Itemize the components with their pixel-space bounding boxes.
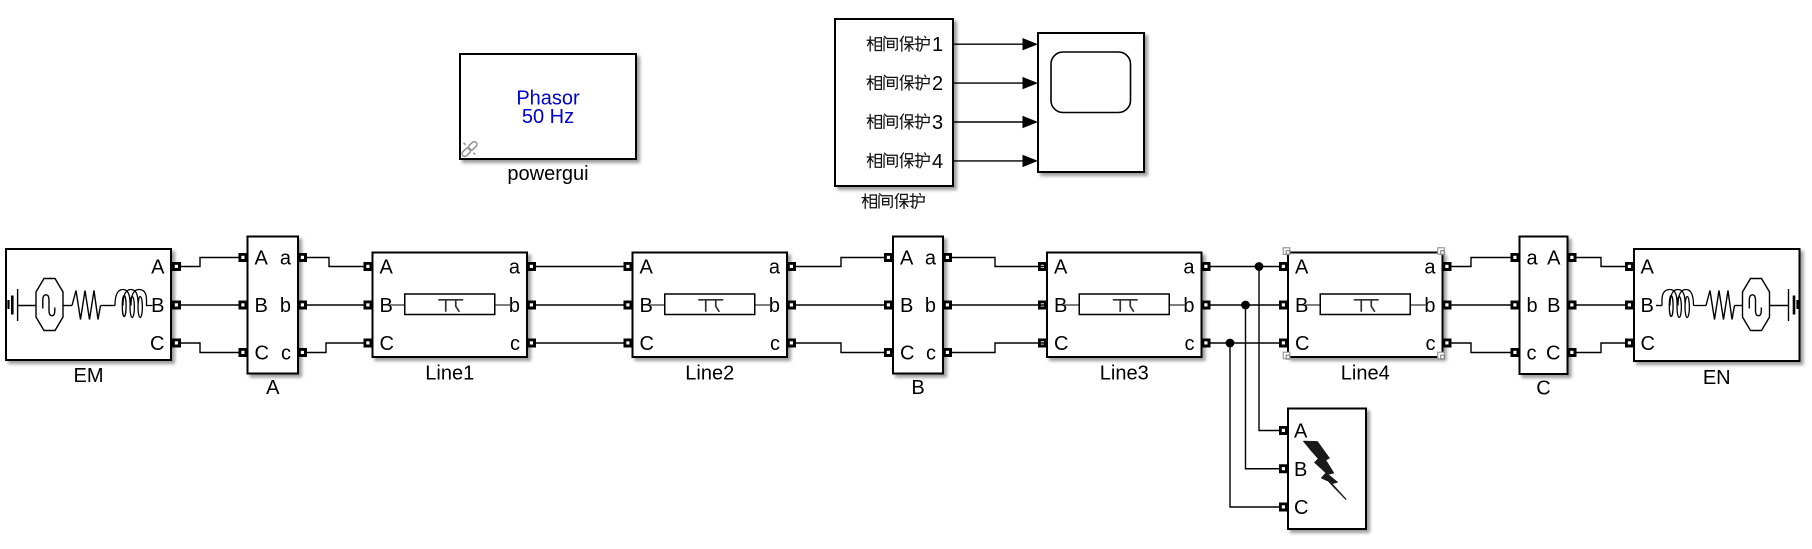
EM icon: AC source circle: [36, 279, 63, 331]
EN icon: AC source circle: [1743, 279, 1770, 331]
wire Line4 a to C a: [1452, 258, 1511, 267]
EN port A: [1625, 262, 1634, 271]
B right port b: [943, 301, 952, 310]
A right port b: [298, 301, 307, 310]
wire Line2 c to B C: [796, 343, 884, 353]
three-phase fault block: [1288, 409, 1366, 530]
svg-text:Line3: Line3: [1100, 363, 1149, 385]
source block EN: [1634, 249, 1800, 361]
wire C A to EN A: [1577, 258, 1626, 267]
outport label 相间保护4: [867, 151, 943, 173]
Line2 pi symbol box: [650, 294, 771, 315]
wire Line2 a to B A: [796, 258, 884, 267]
A left port B: [239, 301, 248, 310]
Line1 port b: [527, 301, 536, 310]
svg-text:A: A: [1295, 257, 1309, 279]
svg-text:c: c: [281, 343, 291, 365]
svg-text:A: A: [900, 248, 914, 270]
EM icon: battery bars: [7, 289, 17, 321]
wire Line1 b to Line2 B: [536, 304, 624, 306]
Line3 label: [1100, 363, 1149, 385]
subsystem label 相间保护: [862, 194, 924, 209]
fault port labels: [1294, 421, 1308, 520]
fault lightning bolt icon: [1304, 441, 1346, 499]
Line2 port C: [624, 339, 633, 348]
svg-text:C: C: [900, 343, 914, 365]
B left port A: [884, 253, 893, 262]
EM port C: [172, 339, 181, 348]
svg-text:C: C: [1641, 333, 1655, 355]
svg-text:1: 1: [932, 34, 943, 56]
svg-text:B: B: [1294, 459, 1307, 481]
EN icon: battery bars: [1789, 289, 1799, 321]
EM port labels: [150, 257, 165, 356]
svg-text:C: C: [150, 333, 164, 355]
svg-text:A: A: [640, 257, 654, 279]
EM icon: lead source to resistor: [63, 305, 72, 307]
Line2 port b: [787, 301, 796, 310]
wire EM A to block A: [181, 258, 239, 267]
powergui block: [460, 54, 636, 159]
svg-text:C: C: [1054, 333, 1068, 355]
outport label 相间保护1: [867, 34, 943, 56]
measurement block A: [248, 237, 299, 374]
svg-text:a: a: [1527, 248, 1539, 270]
wire tap C to fault C: [1230, 343, 1279, 507]
svg-text:B: B: [1547, 295, 1560, 317]
fault port B: [1279, 464, 1288, 473]
subsystem block 相间保护: [835, 19, 953, 186]
signal wire 相间保护2 to scope: [953, 77, 1038, 89]
svg-text:c: c: [770, 333, 780, 355]
svg-text:B: B: [1641, 295, 1654, 317]
Line3 pi symbol box: [1064, 294, 1185, 315]
EN label: [1703, 367, 1731, 389]
Line4 port B: [1279, 301, 1288, 310]
EM icon: lead resistor to inductor: [101, 305, 116, 307]
EM port B: [172, 301, 181, 310]
Line4 pi symbol box: [1305, 294, 1426, 315]
powergui label: [507, 163, 588, 185]
Line2 port a: [787, 262, 796, 271]
svg-text:C: C: [1536, 378, 1550, 400]
svg-text:a: a: [925, 248, 937, 270]
B right port a: [943, 253, 952, 262]
Line1 label: [425, 363, 474, 385]
svg-text:A: A: [1294, 421, 1308, 443]
svg-text:B: B: [900, 295, 913, 317]
EM icon: inductor: [115, 290, 153, 318]
Line3 port C: [1038, 339, 1047, 348]
wire tap B to fault B: [1246, 305, 1280, 469]
EN icon: lead B to inductor: [1656, 305, 1662, 307]
EM icon: resistor: [72, 291, 101, 320]
Line4 port c: [1443, 339, 1452, 348]
B label: [911, 377, 924, 399]
EM label: [74, 365, 104, 387]
svg-text:A: A: [1054, 257, 1068, 279]
C left port c: [1511, 348, 1520, 357]
svg-text:B: B: [1054, 295, 1067, 317]
svg-text:c: c: [926, 343, 936, 365]
wire Line1 a to Line2 A: [536, 266, 624, 268]
C left port b: [1511, 301, 1520, 310]
svg-text:b: b: [509, 295, 520, 317]
EN port C: [1625, 339, 1634, 348]
Line4 label: [1341, 363, 1390, 385]
signal wire 相间保护1 to scope: [953, 38, 1038, 50]
pi-section line block Line3: [1047, 253, 1202, 358]
wire A c to Line1 C: [307, 343, 364, 353]
Line4 selection handles: [1283, 248, 1290, 255]
wire Line4 c to C c: [1452, 343, 1511, 353]
svg-text:C: C: [1294, 497, 1308, 519]
wire Line2 b to B B: [796, 304, 884, 306]
wire Line3 c to Line4 C: [1211, 342, 1280, 344]
svg-text:A: A: [266, 377, 280, 399]
C right port B: [1568, 301, 1577, 310]
powergui broken-link badge: [461, 140, 478, 157]
svg-text:2: 2: [932, 73, 943, 95]
Line1 pi symbol box: [390, 294, 511, 315]
svg-text:a: a: [509, 257, 521, 279]
Line4 port A: [1279, 262, 1288, 271]
wire Line4 b to C b: [1452, 304, 1511, 306]
wire EM B to block B: [181, 304, 239, 306]
svg-text:C: C: [1546, 343, 1560, 365]
Line2 port B: [624, 301, 633, 310]
svg-text:A: A: [380, 257, 394, 279]
svg-text:A: A: [1547, 248, 1561, 270]
svg-text:B: B: [911, 377, 924, 399]
junction dot phase A: [1255, 262, 1264, 271]
Line4 port a: [1443, 262, 1452, 271]
svg-text:b: b: [1424, 295, 1435, 317]
wire tap A to fault A: [1259, 267, 1279, 431]
A right port a: [298, 253, 307, 262]
scope block: [1038, 33, 1144, 172]
Line1 port A: [364, 262, 373, 271]
svg-text:EM: EM: [74, 365, 104, 387]
A left port A: [239, 253, 248, 262]
EN icon: inductor: [1662, 290, 1706, 318]
svg-text:b: b: [1183, 295, 1194, 317]
svg-text:Line2: Line2: [685, 363, 734, 385]
Line3 port a: [1202, 262, 1211, 271]
svg-text:A: A: [1641, 257, 1655, 279]
Line2 port A: [624, 262, 633, 271]
C right port A: [1568, 253, 1577, 262]
Line2 port c: [787, 339, 796, 348]
svg-text:B: B: [151, 295, 164, 317]
Line4 port b: [1443, 301, 1452, 310]
C right port C: [1568, 348, 1577, 357]
svg-text:a: a: [1183, 257, 1195, 279]
Line1 port a: [527, 262, 536, 271]
svg-text:a: a: [1424, 257, 1436, 279]
EN port B: [1625, 301, 1634, 310]
svg-text:B: B: [1295, 295, 1308, 317]
svg-text:b: b: [1527, 295, 1538, 317]
svg-text:EN: EN: [1703, 367, 1731, 389]
svg-text:50 Hz: 50 Hz: [522, 106, 574, 128]
A left port C: [239, 348, 248, 357]
svg-text:b: b: [769, 295, 780, 317]
Line3 port B: [1038, 301, 1047, 310]
wire B b to Line3 B: [952, 304, 1045, 306]
svg-text:C: C: [640, 333, 654, 355]
A label: [266, 377, 280, 399]
svg-text:B: B: [380, 295, 393, 317]
svg-text:A: A: [255, 248, 269, 270]
wire Line3 a to Line4 A: [1211, 266, 1280, 268]
A right port c: [298, 348, 307, 357]
outport label 相间保护3: [867, 112, 943, 134]
fault port A: [1279, 426, 1288, 435]
svg-text:A: A: [151, 257, 165, 279]
wire A b to Line1 B: [307, 304, 364, 306]
svg-text:3: 3: [932, 112, 943, 134]
pi-section line block Line4: [1288, 253, 1443, 358]
svg-text:C: C: [1295, 333, 1309, 355]
Line2 label: [685, 363, 734, 385]
EN icon: resistor: [1706, 291, 1735, 320]
outport label 相间保护2: [867, 73, 943, 95]
svg-text:B: B: [640, 295, 653, 317]
EN icon: lead source to battery: [1770, 305, 1789, 307]
svg-text:c: c: [1527, 343, 1537, 365]
svg-text:a: a: [769, 257, 781, 279]
C label: [1536, 378, 1550, 400]
svg-text:B: B: [255, 295, 268, 317]
measurement block C: [1520, 237, 1568, 375]
svg-text:b: b: [925, 295, 936, 317]
wire Line3 b to Line4 B: [1211, 304, 1280, 306]
B left port C: [884, 348, 893, 357]
svg-text:C: C: [255, 343, 269, 365]
EM icon: sine wave inside source: [43, 295, 55, 316]
Line3 port b: [1202, 301, 1211, 310]
B right port c: [943, 348, 952, 357]
wire EM C to block C: [181, 343, 239, 353]
EN icon: sine wave inside source: [1749, 295, 1761, 316]
svg-text:Line4: Line4: [1341, 363, 1390, 385]
pi-section line block Line2: [633, 253, 788, 358]
Line4 port C: [1279, 339, 1288, 348]
signal wire 相间保护4 to scope: [953, 155, 1038, 167]
EM icon: lead battery to source: [18, 305, 36, 307]
wire C C to EN C: [1577, 343, 1626, 353]
EN icon: lead resistor to source: [1735, 305, 1743, 307]
svg-text:4: 4: [932, 151, 943, 173]
source block EM: [6, 249, 171, 360]
wire Line1 c to Line2 C: [536, 342, 624, 344]
EM port A: [172, 262, 181, 271]
svg-text:c: c: [1185, 333, 1195, 355]
signal wire 相间保护3 to scope: [953, 116, 1038, 128]
wire B a to Line3 A: [952, 258, 1045, 267]
wire A a to Line1 A: [307, 258, 364, 267]
junction dot phase C: [1226, 339, 1235, 348]
Line3 port A: [1038, 262, 1047, 271]
wire C B to EN B: [1577, 304, 1626, 306]
Line1 port c: [527, 339, 536, 348]
svg-text:C: C: [380, 333, 394, 355]
Line1 port C: [364, 339, 373, 348]
EN port labels: [1641, 257, 1655, 356]
B left port B: [884, 301, 893, 310]
Line1 port B: [364, 301, 373, 310]
fault port C: [1279, 503, 1288, 512]
svg-text:a: a: [280, 248, 292, 270]
C left port a: [1511, 253, 1520, 262]
wire B c to Line3 C: [952, 343, 1045, 353]
svg-text:c: c: [1426, 333, 1436, 355]
svg-text:b: b: [280, 295, 291, 317]
svg-text:Line1: Line1: [425, 363, 474, 385]
scope screen: [1051, 52, 1131, 113]
svg-text:powergui: powergui: [507, 163, 588, 185]
junction dot phase B: [1241, 301, 1250, 310]
powergui icon text Phasor 50 Hz: [516, 88, 580, 129]
pi-section line block Line1: [373, 253, 528, 358]
svg-text:c: c: [510, 333, 520, 355]
measurement block B: [893, 237, 943, 374]
Line3 port c: [1202, 339, 1211, 348]
